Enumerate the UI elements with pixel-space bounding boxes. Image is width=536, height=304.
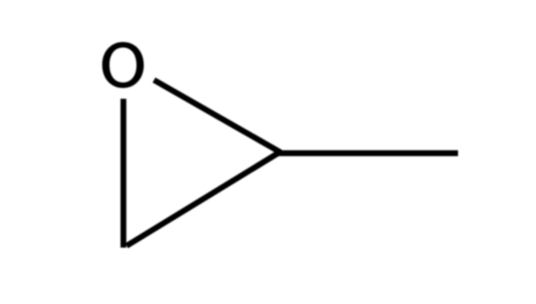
bond O-C2 (vertical) xyxy=(121,99,127,248)
bond O-C1 (upper diagonal) xyxy=(154,80,281,152)
bond C1-CH3 (methyl, horizontal) xyxy=(278,150,458,156)
bond C1-C2 (lower diagonal) xyxy=(127,152,280,246)
atom O xyxy=(102,42,144,88)
